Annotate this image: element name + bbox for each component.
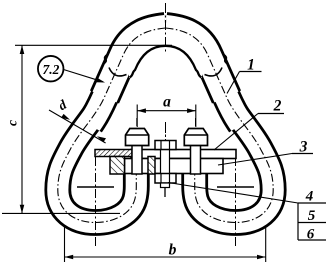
hatched strip (sectioned plate left) xyxy=(95,150,132,157)
hatched block below strip xyxy=(110,157,125,175)
rope centerline dash-dot left xyxy=(58,28,166,223)
splice transition arc on right leg xyxy=(205,68,223,76)
dimension a: extension lines xyxy=(136,105,138,128)
bolt1 head xyxy=(126,129,149,146)
loop centerline cross right xyxy=(235,157,237,247)
dimension a: dim line with arrows xyxy=(137,110,196,112)
svg-text:6: 6 xyxy=(307,227,315,243)
rope taper right xyxy=(225,93,242,125)
dimension c: vertical dim line with arrows xyxy=(21,45,23,213)
svg-text:7.2: 7.2 xyxy=(42,62,59,77)
rope white cores xyxy=(58,92,137,223)
outer contour jog right xyxy=(223,55,228,65)
lower nut xyxy=(155,174,176,184)
middle stud xyxy=(161,150,170,175)
svg-text:a: a xyxy=(163,94,171,111)
bolt1 shank xyxy=(132,145,142,174)
stud axis xyxy=(165,125,167,141)
leader from 7.2 circle xyxy=(64,70,104,82)
splice transition arc on left leg xyxy=(109,68,127,76)
rope centerline dash-dot right xyxy=(166,28,274,223)
upper nut xyxy=(155,141,176,150)
dimension c: bottom extension line xyxy=(2,212,120,214)
dimension d line across left leg xyxy=(49,110,106,143)
stud end below xyxy=(161,183,170,188)
clamp plate top (white) xyxy=(131,150,236,159)
outer contour jog left xyxy=(103,55,108,65)
svg-text:b: b xyxy=(169,242,177,259)
position labels 4 5 6 with leader and shelf lines xyxy=(168,183,298,204)
dimension b: extension lines xyxy=(64,226,66,262)
stud tip axis tick xyxy=(164,188,166,198)
loop centerline cross left xyxy=(95,157,97,247)
bolt axis dash-dots xyxy=(136,118,138,129)
dimension c: top extension line xyxy=(15,44,172,46)
hatched sliver right of bolt1 xyxy=(148,157,155,175)
svg-text:5: 5 xyxy=(308,208,316,224)
svg-text:4: 4 xyxy=(305,189,314,205)
dimension b: dim line with arrows xyxy=(65,256,266,258)
bolt2 head xyxy=(184,129,207,146)
rope right loop band xyxy=(195,92,274,223)
apex inner contour with jogs xyxy=(130,46,202,78)
apex inner dome reshape xyxy=(129,39,202,79)
rope left loop band xyxy=(58,92,137,223)
rope right leg band xyxy=(166,28,227,97)
main vertical axis dash-dot xyxy=(165,3,167,52)
svg-text:c: c xyxy=(5,120,20,126)
rope left leg band xyxy=(105,28,166,97)
rope taper left xyxy=(90,93,107,125)
callout circle 7.2 xyxy=(38,56,64,82)
svg-text:2: 2 xyxy=(273,98,282,115)
bolt2 shank xyxy=(191,145,201,174)
clamp bottom bar (white) xyxy=(125,159,224,174)
